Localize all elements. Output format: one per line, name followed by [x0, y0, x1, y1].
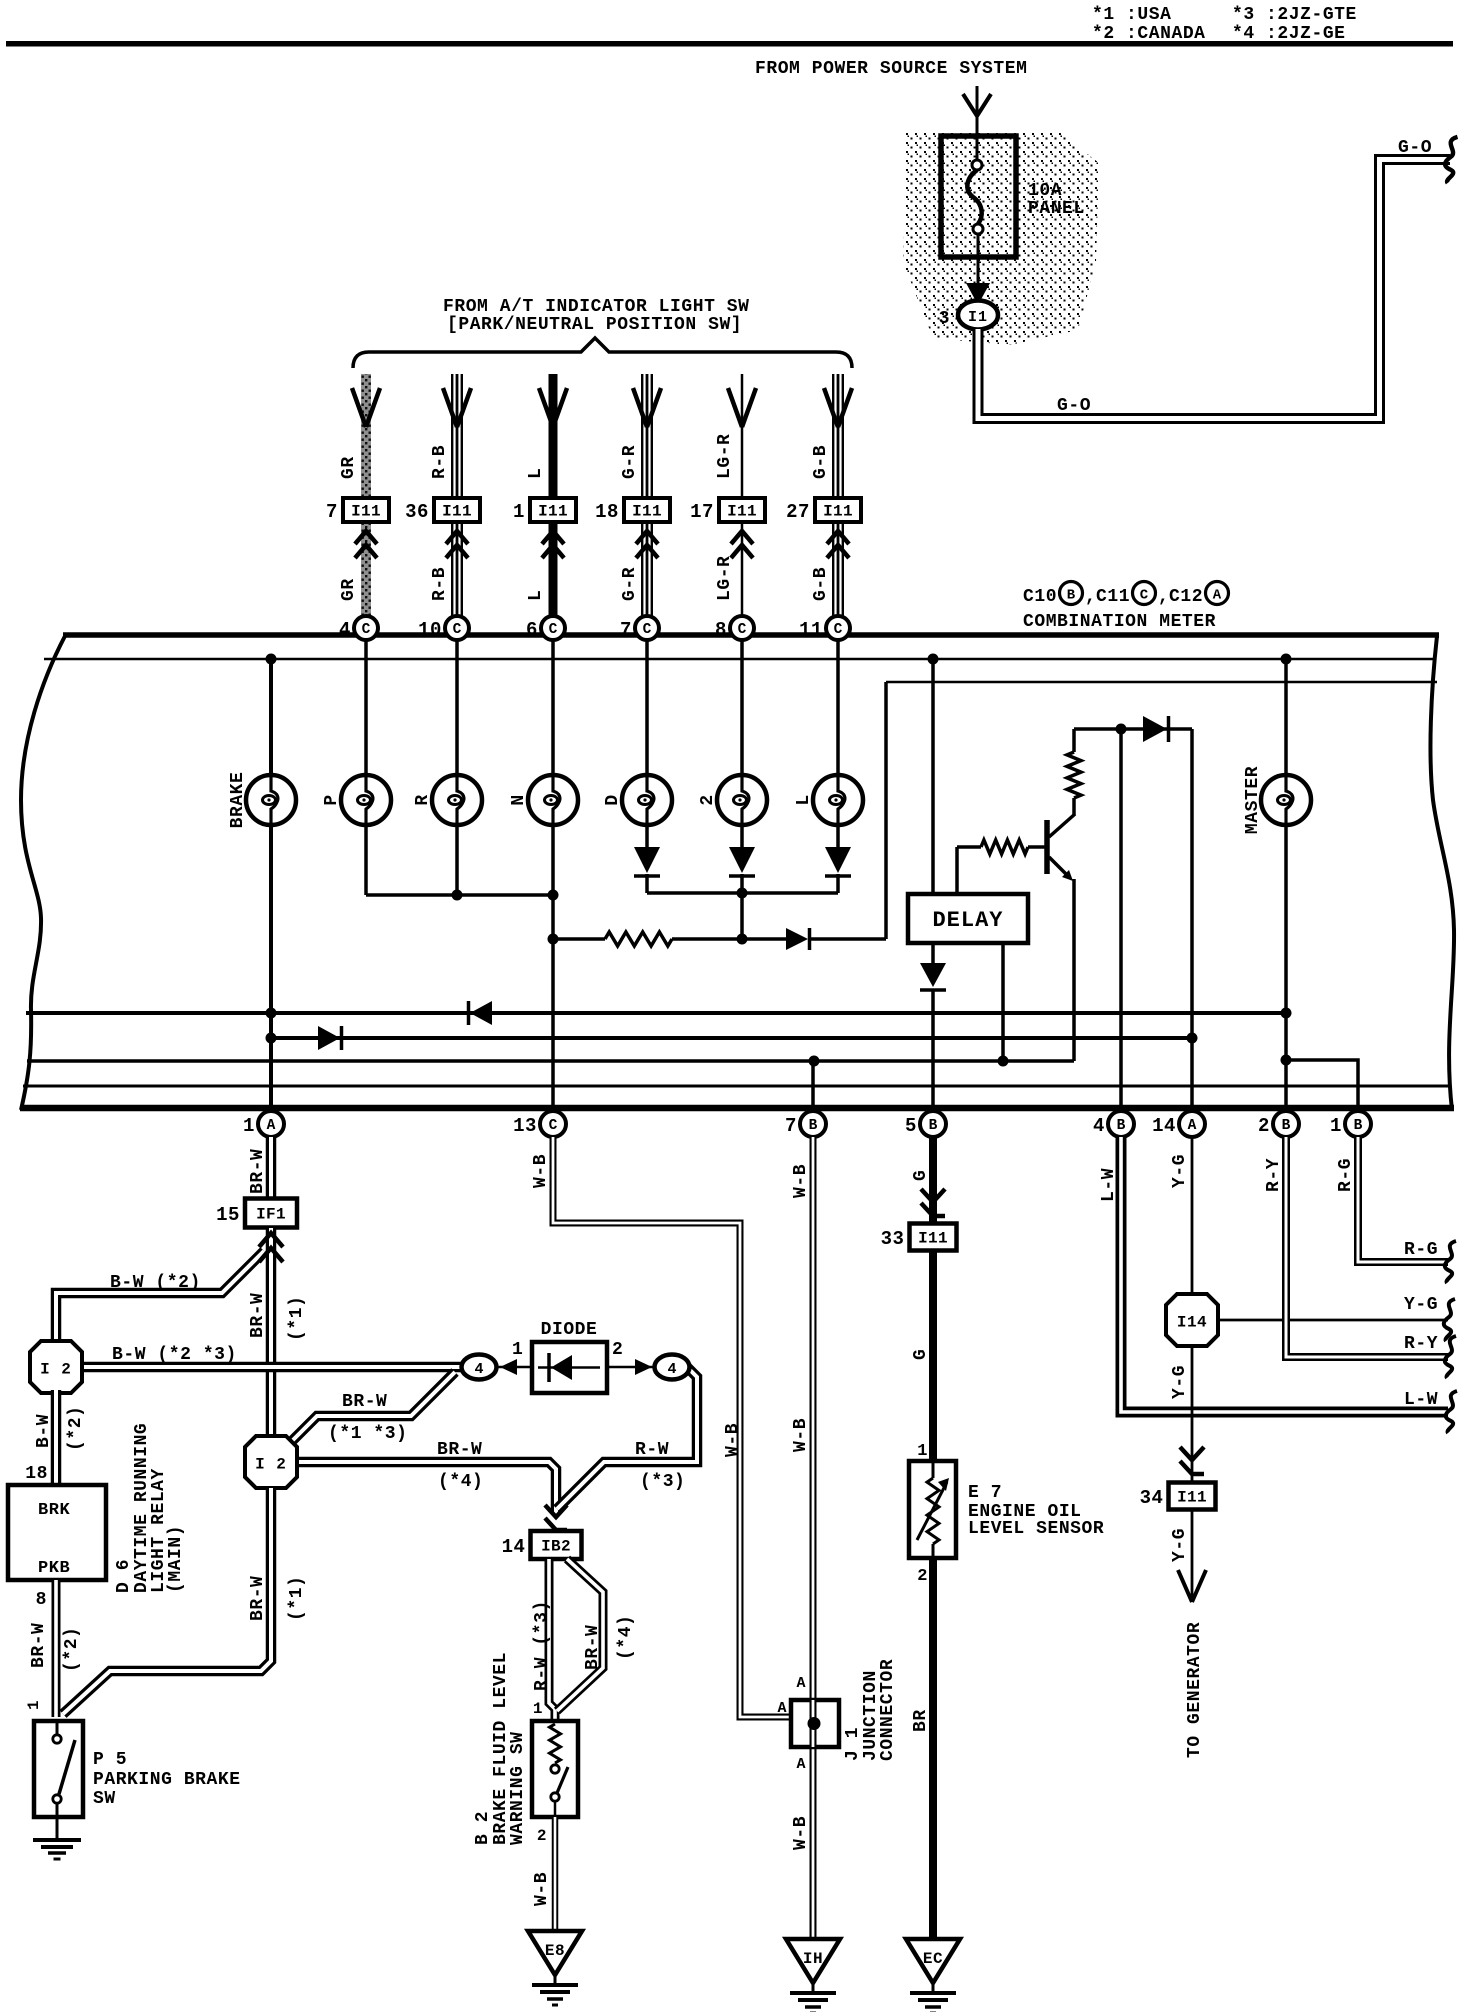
- svg-text:1: 1: [1330, 1115, 1342, 1137]
- connector 34 I11: [1169, 1483, 1216, 1510]
- svg-text:I11: I11: [351, 503, 381, 521]
- wire R lamp column: [455, 639, 459, 895]
- svg-text:34: 34: [1140, 1487, 1164, 1509]
- svg-text:B: B: [1282, 1118, 1291, 1134]
- wire L from A/T indicator sw: [549, 374, 558, 497]
- svg-text:4: 4: [1093, 1115, 1105, 1137]
- svg-text:DIODE: DIODE: [541, 1320, 598, 1340]
- svg-text:G: G: [911, 1349, 931, 1360]
- svg-text:1: 1: [533, 1700, 543, 1718]
- connector 15 IF1: [245, 1199, 297, 1228]
- junction MASTER/top bus: [1281, 654, 1292, 665]
- svg-text:R-Y: R-Y: [1264, 1158, 1284, 1192]
- lamp MASTER: [1261, 775, 1311, 825]
- oval terminal 4 (left of diode): [462, 1355, 497, 1380]
- wire 7B column (tap on bus 3): [811, 1061, 815, 1108]
- svg-text:(*1): (*1): [287, 1576, 307, 1621]
- svg-text:(*2): (*2): [62, 1627, 82, 1672]
- svg-text:R: R: [413, 794, 433, 805]
- wire W-B from 7B to IH: [810, 1137, 817, 1937]
- connector 18 I11: [624, 498, 670, 522]
- svg-text:B 2: B 2: [473, 1811, 493, 1845]
- octagon I2 (center): [245, 1436, 297, 1488]
- engine oil level sensor E7: [909, 1461, 956, 1558]
- svg-text:3: 3: [939, 309, 950, 329]
- junction 14A column/bus 2: [1187, 1033, 1198, 1044]
- connector 1 B (meter bottom): [1345, 1111, 1371, 1137]
- connector 13 C (meter bottom): [540, 1111, 566, 1137]
- svg-text:PARKING BRAKE: PARKING BRAKE: [93, 1770, 241, 1790]
- svg-text:IB2: IB2: [541, 1538, 571, 1556]
- svg-text:PANEL: PANEL: [1028, 199, 1085, 219]
- diode under L lamp: [825, 847, 851, 873]
- svg-text:R-B: R-B: [430, 445, 450, 479]
- svg-text:33: 33: [881, 1228, 905, 1250]
- svg-text:L: L: [526, 590, 546, 601]
- svg-text:4: 4: [474, 1361, 483, 1378]
- wire B-W (*2) branch to left I2: [56, 1251, 264, 1344]
- wire 2 lamp column: [740, 639, 744, 847]
- svg-text:L: L: [794, 794, 814, 805]
- wire BR-W (*1) I2 to P5: [63, 1488, 271, 1714]
- svg-text:8: 8: [36, 1590, 47, 1610]
- fuse 10A PANEL: [941, 136, 1016, 257]
- svg-text:BR-W: BR-W: [583, 1625, 603, 1670]
- svg-text:R-W (*3): R-W (*3): [532, 1600, 552, 1691]
- svg-text:2: 2: [612, 1340, 623, 1360]
- svg-text:G-B: G-B: [811, 445, 831, 479]
- svg-text:I11: I11: [823, 503, 853, 521]
- svg-text:C: C: [453, 622, 462, 638]
- brace: [353, 338, 852, 368]
- lamp BRAKE: [246, 775, 296, 825]
- svg-text:D 6: D 6: [114, 1559, 134, 1593]
- junction MASTER/bus 1: [1281, 1008, 1292, 1019]
- lamp D: [622, 775, 672, 825]
- brake fluid level warning sw B2: [532, 1721, 578, 1817]
- svg-text:W-B: W-B: [532, 1872, 552, 1906]
- svg-text:BR-W: BR-W: [248, 1149, 268, 1194]
- wire from power source with arrow: [976, 86, 979, 140]
- wire R-G from 1B to right: [1358, 1137, 1448, 1262]
- svg-text:*1 :USA: *1 :USA: [1092, 5, 1171, 25]
- ground IH: [786, 1939, 840, 1983]
- svg-text:L-W: L-W: [1404, 1390, 1438, 1410]
- wire joining D 2 L diodes: [647, 891, 838, 895]
- resistor net from N column to right inner line: [553, 937, 605, 941]
- connector 36 I11: [434, 498, 480, 522]
- svg-text:4: 4: [667, 1361, 676, 1378]
- svg-text:C: C: [738, 622, 747, 638]
- wire R-W (*3) from diode to IB2: [557, 1367, 697, 1509]
- svg-text:A: A: [1213, 588, 1222, 604]
- svg-text:BR-W: BR-W: [248, 1293, 268, 1338]
- wire GR from A/T indicator sw: [361, 374, 371, 497]
- wire BR-W (*4) from I2 to IB2: [293, 1462, 556, 1512]
- lamp R: [432, 775, 482, 825]
- diode on bus 2 (pointing right): [318, 1026, 340, 1050]
- junction collector net/4B column: [1116, 724, 1127, 735]
- wire G-R from A/T indicator sw: [641, 374, 653, 497]
- meter bus line 3 (left segment): [27, 1059, 1074, 1063]
- svg-text:7: 7: [326, 501, 338, 523]
- junction BRAKE/bus 1: [266, 1008, 277, 1019]
- svg-text:L-W: L-W: [1099, 1168, 1119, 1202]
- svg-text:Y-G: Y-G: [1404, 1295, 1438, 1315]
- top rule: [6, 41, 1453, 47]
- ground below P5: [56, 1817, 59, 1838]
- svg-text:B: B: [1354, 1118, 1363, 1134]
- meter inner top bus line: [44, 658, 1436, 661]
- svg-text:C: C: [549, 622, 558, 638]
- connector 17 I11: [719, 498, 765, 522]
- connector pin 10 C (meter top): [445, 616, 469, 640]
- svg-text:18: 18: [595, 501, 619, 523]
- svg-text:I11: I11: [632, 503, 662, 521]
- collector resistor: [1072, 798, 1076, 815]
- diode on bus 1 (pointing left): [470, 1001, 492, 1025]
- svg-text:I11: I11: [918, 1230, 948, 1248]
- junction R lamp net: [452, 890, 463, 901]
- connector pin 11 C (meter top): [826, 616, 850, 640]
- chevrons into IB2: [545, 1505, 567, 1517]
- svg-text:DELAY: DELAY: [932, 908, 1003, 933]
- junction DELAY out/bus 3: [998, 1056, 1009, 1067]
- svg-text:(*4): (*4): [438, 1472, 483, 1492]
- svg-text:(*1): (*1): [287, 1296, 307, 1341]
- wire BR-W from 1A to IF1: [266, 1137, 277, 1199]
- wire D lamp column: [645, 639, 649, 847]
- svg-text:W-B: W-B: [791, 1164, 811, 1198]
- svg-text:E8: E8: [545, 1942, 565, 1960]
- wire L-W from 4B to right: [1121, 1137, 1448, 1412]
- wire G from I11 to E7: [929, 1251, 937, 1461]
- svg-text:BR-W: BR-W: [29, 1623, 49, 1668]
- lamp N: [528, 775, 578, 825]
- svg-text:B: B: [929, 1118, 938, 1134]
- meter inner line (right, from resistor net): [886, 681, 1437, 684]
- svg-text:,: ,: [1158, 587, 1169, 607]
- svg-text:IF1: IF1: [256, 1206, 286, 1224]
- connector 14 IB2: [531, 1531, 582, 1559]
- continuation squiggle G-O: [1445, 137, 1457, 183]
- svg-text:BR-W: BR-W: [342, 1392, 387, 1412]
- diode under D lamp: [634, 847, 660, 873]
- svg-text:2: 2: [1258, 1115, 1270, 1137]
- svg-text:27: 27: [786, 501, 810, 523]
- connector 1 I11: [530, 498, 576, 522]
- connector 1 A (meter bottom): [258, 1111, 284, 1137]
- ground E8: [528, 1931, 582, 1975]
- svg-text:I11: I11: [442, 503, 472, 521]
- svg-text:6: 6: [526, 619, 538, 641]
- connector pin 7 C (meter top): [635, 616, 659, 640]
- svg-text:(*3): (*3): [640, 1472, 685, 1492]
- svg-text:I1: I1: [968, 309, 988, 326]
- svg-text:IH: IH: [803, 1950, 823, 1968]
- stipple shading around fuse: [903, 131, 1099, 345]
- connector 7 I11: [343, 498, 389, 522]
- oval terminal 4 (right of diode): [655, 1355, 690, 1380]
- chevrons into IF1: [259, 1233, 283, 1247]
- svg-text:W-B: W-B: [791, 1418, 811, 1452]
- svg-text:C10: C10: [1023, 587, 1057, 607]
- svg-text:A: A: [267, 1118, 276, 1134]
- svg-text:TO GENERATOR: TO GENERATOR: [1185, 1622, 1205, 1758]
- wire G from 5B to 33 I11: [929, 1137, 937, 1224]
- svg-text:B-W (*2 *3): B-W (*2 *3): [112, 1345, 237, 1365]
- wire BR from E7 to EC: [929, 1558, 937, 1937]
- junction diode net D-2-L: [737, 888, 748, 899]
- svg-text:WARNING SW: WARNING SW: [508, 1731, 528, 1845]
- svg-text:1: 1: [512, 1340, 523, 1360]
- wire G-B from A/T indicator sw: [832, 374, 844, 497]
- transistor Q: [1044, 820, 1050, 874]
- svg-text:BR-W: BR-W: [437, 1440, 482, 1460]
- connector 5 B (meter bottom): [920, 1111, 946, 1137]
- svg-text:17: 17: [690, 501, 714, 523]
- connector 2 B (meter bottom): [1273, 1111, 1299, 1137]
- diode symbol inside: [538, 1366, 600, 1369]
- svg-text:8: 8: [715, 619, 727, 641]
- wire BRAKE lamp column: [269, 659, 273, 1108]
- svg-text:G-O: G-O: [1057, 396, 1091, 416]
- svg-text:EC: EC: [923, 1950, 943, 1968]
- connector 4 B (meter bottom): [1108, 1111, 1134, 1137]
- connector pin 8 C (meter top): [730, 616, 754, 640]
- wire DELAY to 5B with diode: [931, 943, 935, 963]
- svg-text:(*4): (*4): [616, 1615, 636, 1660]
- svg-text:(*1 *3): (*1 *3): [328, 1424, 407, 1444]
- combination meter box (torn edges): [21, 636, 65, 1110]
- svg-text:C: C: [1140, 588, 1149, 604]
- junction 7B tap/bus 3: [809, 1056, 820, 1067]
- svg-text:G-O: G-O: [1398, 138, 1432, 158]
- wire collector to diode: [1074, 727, 1192, 731]
- svg-text:11: 11: [799, 619, 823, 641]
- svg-text:BR-W: BR-W: [248, 1576, 268, 1621]
- svg-text:R-B: R-B: [430, 567, 450, 601]
- meter bus line 1: [26, 1011, 1286, 1015]
- junction diode net/resistor net: [737, 934, 748, 945]
- wire R-B from A/T indicator sw: [451, 374, 463, 497]
- wire B-W (*2 *3) from I2 to diode: [80, 1362, 463, 1373]
- wire P lamp column: [364, 639, 368, 895]
- junction DELAY/top bus: [928, 654, 939, 665]
- svg-text:Y-G: Y-G: [1170, 1154, 1190, 1188]
- svg-text:GR: GR: [339, 456, 359, 479]
- svg-text:C: C: [362, 622, 371, 638]
- svg-text:C: C: [834, 622, 843, 638]
- svg-text:I11: I11: [727, 503, 757, 521]
- wire DELAY input column: [931, 659, 935, 894]
- meter bus line 2: [271, 1036, 1192, 1040]
- diode at top of 4B/14A columns (pointing right): [1143, 716, 1167, 742]
- wire R-Y from 2B to right: [1286, 1137, 1448, 1357]
- svg-text:C: C: [549, 1118, 558, 1134]
- svg-text:1: 1: [25, 1700, 43, 1710]
- junction N column/resistor net: [548, 934, 559, 945]
- wire BR-W (*2) D6 to P5: [52, 1580, 61, 1717]
- DELAY unit: [908, 894, 1028, 943]
- svg-text:B: B: [1067, 588, 1076, 604]
- octagon I2 (left): [30, 1341, 82, 1393]
- svg-text:G: G: [911, 1170, 931, 1181]
- wire Y-G from I14 to right: [1218, 1319, 1448, 1322]
- svg-text:A: A: [777, 1700, 787, 1717]
- svg-text:(MAIN): (MAIN): [166, 1525, 186, 1593]
- connector 3 I1 (oval): [958, 301, 998, 330]
- svg-text:I 2: I 2: [40, 1361, 72, 1379]
- svg-text:R-W: R-W: [635, 1440, 669, 1460]
- svg-text:W-B: W-B: [531, 1154, 551, 1188]
- lamp L: [813, 775, 863, 825]
- connector pin 4 C (meter top): [354, 616, 378, 640]
- svg-text:J 1: J 1: [843, 1727, 863, 1761]
- connector 33 I11: [910, 1224, 957, 1251]
- svg-text:10: 10: [418, 619, 442, 641]
- svg-text:CONNECTOR: CONNECTOR: [878, 1659, 898, 1761]
- svg-text:1: 1: [513, 501, 525, 523]
- base resistor of transistor: [955, 847, 959, 894]
- svg-text:B-W: B-W: [34, 1414, 54, 1448]
- wire W-B from 13C to J1: [553, 1137, 791, 1717]
- wire 14A column: [1190, 729, 1194, 1108]
- svg-text:I11: I11: [1177, 1489, 1207, 1507]
- svg-text:I11: I11: [538, 503, 568, 521]
- svg-text:2: 2: [537, 1827, 547, 1845]
- svg-text:R-Y: R-Y: [1404, 1334, 1438, 1354]
- svg-text:C12: C12: [1169, 587, 1203, 607]
- svg-text:(*2): (*2): [66, 1406, 86, 1451]
- svg-text:7: 7: [620, 619, 632, 641]
- svg-text:4: 4: [339, 619, 351, 641]
- svg-text:BR: BR: [911, 1709, 931, 1732]
- svg-text:1: 1: [243, 1115, 255, 1137]
- connector pin 6 C (meter top): [541, 616, 565, 640]
- wire LG-R from A/T indicator sw: [741, 374, 744, 497]
- svg-text:C11: C11: [1096, 587, 1130, 607]
- svg-text:BRK: BRK: [38, 1501, 71, 1520]
- svg-text:[PARK/NEUTRAL POSITION SW]: [PARK/NEUTRAL POSITION SW]: [447, 315, 742, 335]
- wire B-W (*2) I2 to D6 pin 18: [51, 1390, 62, 1485]
- parking brake switch P5: [34, 1721, 83, 1817]
- meter bus line 3 (right segment to 1B): [1286, 1060, 1358, 1108]
- junction BRAKE/top bus: [266, 654, 277, 665]
- octagon I14: [1166, 1294, 1218, 1346]
- svg-text:G-R: G-R: [620, 567, 640, 601]
- wire Y-G from 14A to I14: [1191, 1137, 1194, 1296]
- svg-text:COMBINATION METER: COMBINATION METER: [1023, 612, 1216, 632]
- diode under 2 lamp: [729, 847, 755, 873]
- svg-text:Y-G: Y-G: [1170, 1528, 1190, 1562]
- svg-text:Y-G: Y-G: [1170, 1365, 1190, 1399]
- wire Y-G to generator: [1191, 1510, 1194, 1600]
- connector 27 I11: [815, 498, 861, 522]
- wire N lamp column (to 13C): [551, 639, 555, 1108]
- junction BRAKE/bus 2: [266, 1033, 277, 1044]
- svg-text:A: A: [1188, 1118, 1197, 1134]
- svg-text:14: 14: [502, 1536, 526, 1558]
- svg-text:P: P: [322, 794, 342, 805]
- svg-text:I14: I14: [1177, 1314, 1207, 1332]
- svg-text:C: C: [643, 622, 652, 638]
- wire BR-W (*4) IB2 to B2 (bent): [557, 1559, 603, 1711]
- svg-text:B: B: [1117, 1118, 1126, 1134]
- svg-text:2: 2: [917, 1567, 928, 1586]
- wire G-O from I1 to top right: [978, 160, 1450, 419]
- svg-text:18: 18: [25, 1464, 48, 1484]
- svg-text:36: 36: [405, 501, 429, 523]
- svg-text:G-R: G-R: [620, 445, 640, 479]
- diode on resistor net (pointing right): [786, 928, 808, 950]
- svg-text:1: 1: [917, 1442, 928, 1461]
- svg-text:W-B: W-B: [723, 1423, 743, 1457]
- svg-text:10A: 10A: [1028, 181, 1062, 201]
- svg-text:LEVEL SENSOR: LEVEL SENSOR: [968, 1519, 1104, 1539]
- svg-text:B-W (*2): B-W (*2): [110, 1273, 201, 1293]
- svg-text:B: B: [809, 1118, 818, 1134]
- svg-text:*3 :2JZ-GTE: *3 :2JZ-GTE: [1232, 5, 1357, 25]
- svg-text:BRAKE: BRAKE: [228, 772, 248, 829]
- wire BR-W (*1 *3) diagonal from I2 to diode: [287, 1372, 455, 1446]
- svg-text:FROM POWER SOURCE SYSTEM: FROM POWER SOURCE SYSTEM: [755, 59, 1027, 79]
- svg-text:SW: SW: [93, 1789, 116, 1809]
- svg-text:I 2: I 2: [255, 1456, 287, 1474]
- wire fuse to connector I1: [977, 257, 980, 290]
- svg-text:2: 2: [698, 794, 718, 805]
- svg-text:P 5: P 5: [93, 1750, 127, 1770]
- svg-text:FROM A/T INDICATOR LIGHT SW: FROM A/T INDICATOR LIGHT SW: [443, 297, 750, 317]
- svg-text:R-G: R-G: [1336, 1158, 1356, 1192]
- svg-text:N: N: [509, 794, 529, 805]
- wire BR-W (*1) from IF1 to I2: [266, 1228, 277, 1441]
- junction MASTER/bus 3 right: [1281, 1055, 1292, 1066]
- emitter wire down to bus 3: [1072, 879, 1076, 1061]
- svg-text:14: 14: [1152, 1115, 1176, 1137]
- svg-text:5: 5: [905, 1115, 917, 1137]
- meter bus line 4: [23, 1085, 1449, 1088]
- svg-text:,: ,: [1085, 587, 1096, 607]
- svg-text:E 7: E 7: [968, 1483, 1002, 1503]
- lamp P: [341, 775, 391, 825]
- connector 7 B (meter bottom): [800, 1111, 826, 1137]
- wire MASTER lamp column: [1284, 659, 1288, 1108]
- svg-text:L: L: [526, 468, 546, 479]
- svg-text:15: 15: [216, 1204, 240, 1226]
- junction connector J1: [791, 1700, 839, 1747]
- connector 14 A (meter bottom): [1179, 1111, 1205, 1137]
- svg-text:A: A: [796, 1756, 806, 1773]
- svg-text:G-B: G-B: [811, 567, 831, 601]
- wire R-W (*3) IB2 to B2: [549, 1559, 555, 1721]
- svg-text:MASTER: MASTER: [1243, 766, 1263, 834]
- svg-text:LG-R: LG-R: [715, 434, 735, 479]
- wire W-B B2 to E8: [552, 1817, 559, 1931]
- svg-text:PKB: PKB: [38, 1559, 70, 1578]
- svg-text:7: 7: [785, 1115, 797, 1137]
- ground EC: [906, 1939, 960, 1983]
- lamp 2: [717, 775, 767, 825]
- junction N lamp net: [548, 890, 559, 901]
- svg-text:A: A: [796, 1675, 806, 1692]
- wire joining P R N: [366, 893, 553, 897]
- wire DELAY output to bus 3: [1001, 943, 1005, 1061]
- svg-text:13: 13: [513, 1115, 537, 1137]
- svg-text:R-G: R-G: [1404, 1240, 1438, 1260]
- svg-text:W-B: W-B: [791, 1816, 811, 1850]
- wire L lamp column: [836, 639, 840, 847]
